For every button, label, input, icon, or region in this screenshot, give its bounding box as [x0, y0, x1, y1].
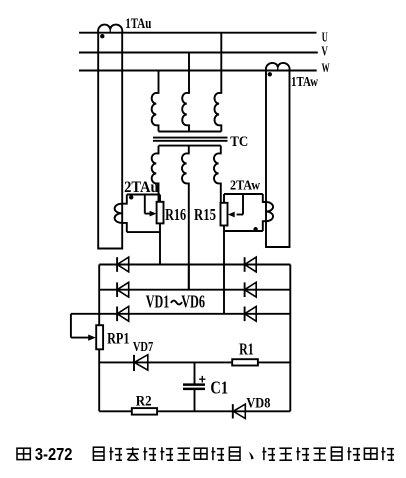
svg-text:VD7: VD7 [133, 339, 153, 354]
svg-text:R15: R15 [194, 205, 216, 224]
svg-text:1TAw: 1TAw [291, 75, 319, 90]
svg-text:V: V [321, 44, 328, 59]
svg-text:R1: R1 [239, 340, 254, 359]
svg-text:R16: R16 [165, 205, 186, 224]
svg-text:TC: TC [230, 134, 248, 150]
svg-text:W: W [322, 61, 330, 75]
svg-text:2TAu: 2TAu [124, 179, 159, 196]
svg-text:VD6: VD6 [181, 292, 205, 312]
svg-text:VD8: VD8 [246, 396, 270, 412]
svg-text:RP1: RP1 [107, 331, 129, 348]
svg-text:VD1: VD1 [146, 292, 170, 312]
svg-text:R2: R2 [136, 394, 152, 410]
svg-text:3-272: 3-272 [35, 444, 73, 464]
svg-text:1TAu: 1TAu [125, 16, 151, 32]
svg-text:C1: C1 [210, 377, 228, 397]
svg-text:+: + [199, 372, 206, 386]
svg-text:2TAw: 2TAw [230, 178, 261, 193]
svg-text:U: U [322, 29, 328, 44]
